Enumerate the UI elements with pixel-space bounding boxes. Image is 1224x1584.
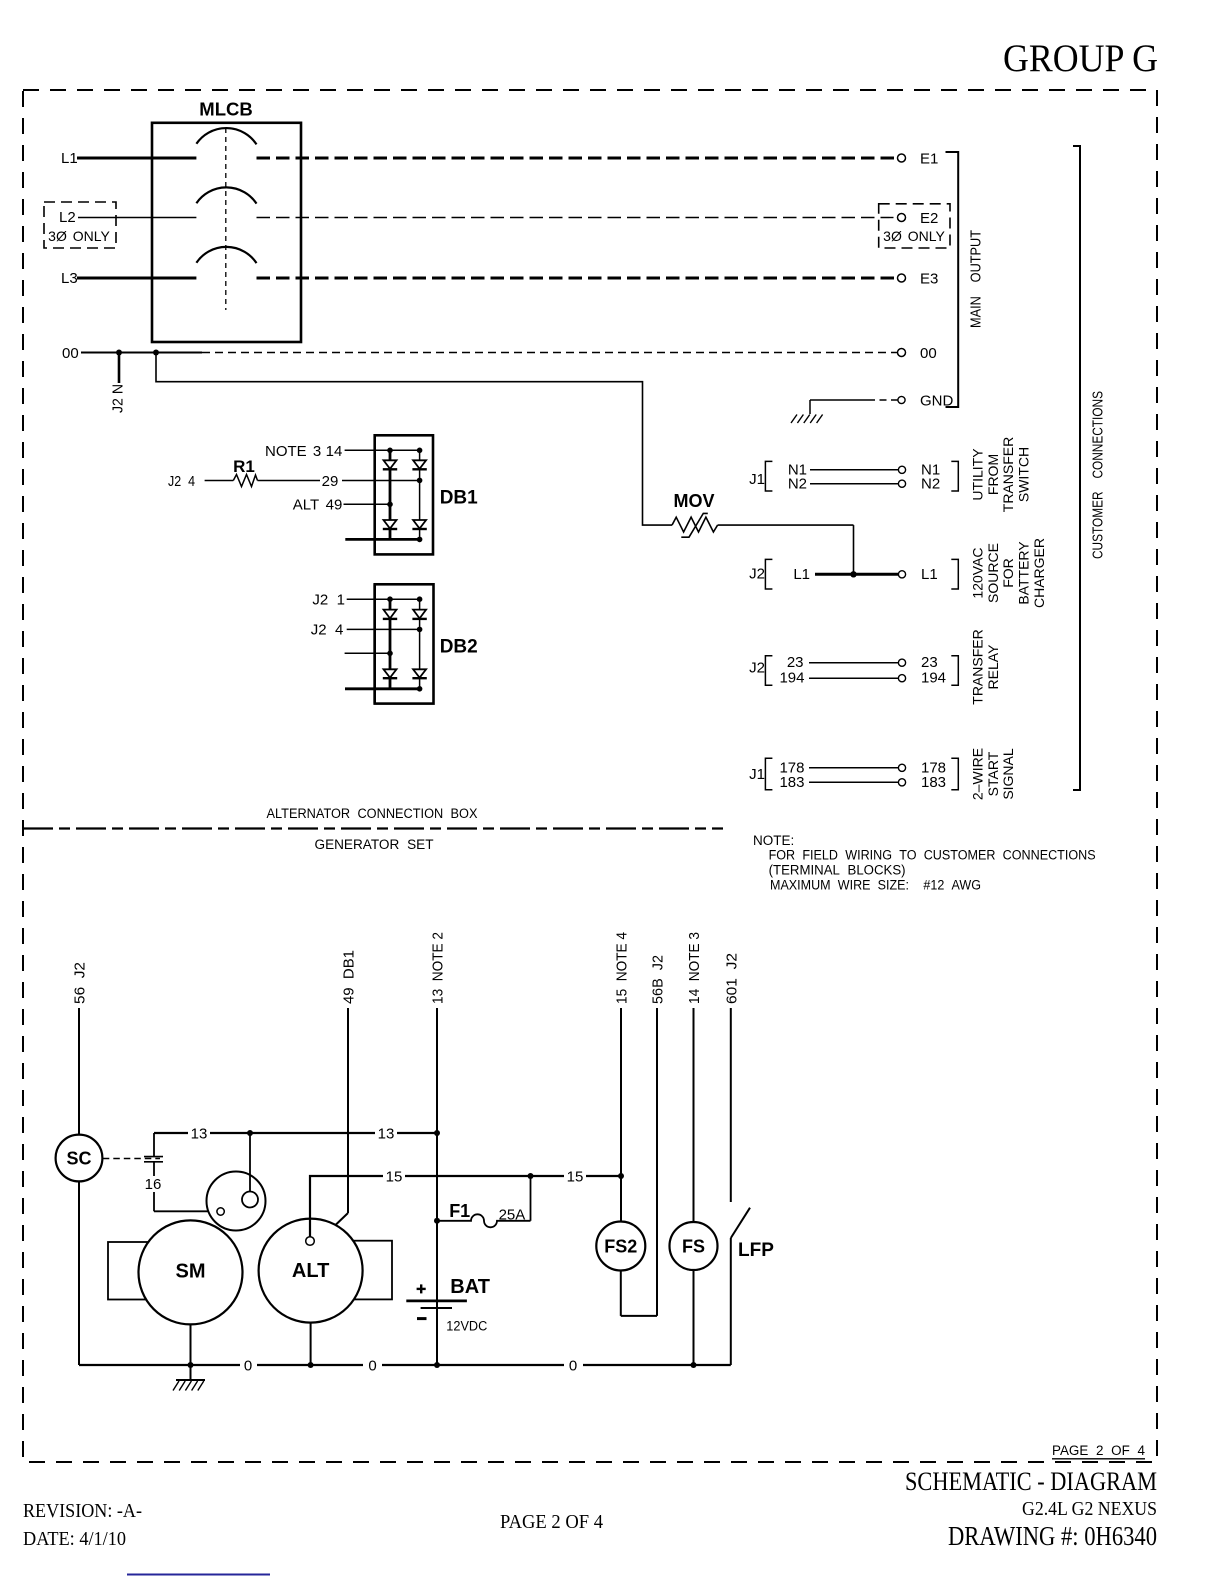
svg-text:NOTE:: NOTE: [753, 833, 794, 848]
svg-text:J2: J2 [749, 566, 765, 583]
svg-text:DB1: DB1 [440, 488, 478, 509]
svg-text:MAXIMUM WIRE SIZE: #12 AWG: MAXIMUM WIRE SIZE: #12 AWG [770, 878, 981, 893]
svg-text:L1: L1 [921, 566, 938, 583]
svg-text:UTILITY: UTILITY [969, 448, 985, 501]
svg-text:15: 15 [386, 1169, 403, 1186]
svg-text:183: 183 [921, 774, 946, 791]
svg-text:E3: E3 [920, 271, 938, 288]
svg-text:SM: SM [176, 1261, 206, 1283]
svg-text:NOTE 3: NOTE 3 [265, 443, 321, 460]
svg-text:49 DB1: 49 DB1 [341, 950, 358, 1004]
svg-text:START: START [985, 751, 1001, 796]
svg-text:CUSTOMER CONNECTIONS: CUSTOMER CONNECTIONS [1090, 391, 1107, 559]
svg-text:13: 13 [191, 1126, 208, 1143]
svg-text:TRANSFER: TRANSFER [1000, 437, 1016, 512]
svg-text:56 J2: 56 J2 [72, 962, 89, 1004]
svg-text:DB2: DB2 [440, 637, 478, 658]
svg-text:R1: R1 [233, 457, 255, 476]
svg-text:15 NOTE 4: 15 NOTE 4 [614, 932, 631, 1004]
svg-text:120VAC: 120VAC [969, 547, 985, 598]
svg-text:L1: L1 [61, 150, 78, 167]
svg-text:FROM: FROM [985, 454, 1001, 495]
svg-text:SCHEMATIC - DIAGRAM: SCHEMATIC - DIAGRAM [905, 1467, 1157, 1496]
svg-text:0: 0 [569, 1358, 577, 1375]
svg-text:F1: F1 [449, 1201, 470, 1221]
svg-text:25A: 25A [499, 1207, 526, 1224]
svg-text:MOV: MOV [673, 491, 714, 511]
svg-text:56B J2: 56B J2 [650, 955, 667, 1004]
svg-text:ALT: ALT [293, 497, 319, 514]
svg-text:J1: J1 [749, 471, 765, 488]
svg-text:13 NOTE 2: 13 NOTE 2 [430, 932, 447, 1004]
svg-text:BATTERY: BATTERY [1016, 541, 1032, 605]
svg-text:14 NOTE 3: 14 NOTE 3 [686, 932, 703, 1004]
svg-text:SIGNAL: SIGNAL [1000, 748, 1016, 800]
svg-text:0: 0 [244, 1358, 252, 1375]
svg-text:L3: L3 [61, 270, 78, 287]
svg-text:PAGE 2 OF 4: PAGE 2 OF 4 [1052, 1443, 1145, 1458]
svg-text:FS2: FS2 [604, 1237, 637, 1257]
svg-text:3Ø ONLY: 3Ø ONLY [883, 228, 945, 244]
svg-text:3Ø ONLY: 3Ø ONLY [48, 228, 110, 244]
svg-text:23: 23 [921, 654, 938, 671]
svg-text:15: 15 [567, 1169, 584, 1186]
svg-text:J1: J1 [749, 766, 765, 783]
svg-text:14: 14 [326, 443, 343, 460]
svg-text:12VDC: 12VDC [446, 1319, 487, 1334]
svg-text:23: 23 [787, 654, 804, 671]
svg-text:601 J2: 601 J2 [723, 953, 740, 1004]
svg-text:SOURCE: SOURCE [985, 543, 1001, 603]
svg-text:00: 00 [62, 345, 79, 362]
svg-text:2–WIRE: 2–WIRE [969, 748, 985, 800]
svg-text:CHARGER: CHARGER [1031, 538, 1047, 608]
svg-text:J2 N: J2 N [110, 384, 127, 413]
svg-text:MLCB: MLCB [199, 99, 252, 120]
svg-text:SC: SC [66, 1149, 91, 1169]
svg-text:DATE: 4/1/10: DATE: 4/1/10 [23, 1528, 126, 1550]
svg-text:GROUP G: GROUP G [1003, 37, 1158, 80]
svg-text:N2: N2 [921, 475, 940, 492]
svg-text:16: 16 [145, 1176, 162, 1193]
svg-text:FS: FS [682, 1237, 705, 1257]
svg-text:J2 4: J2 4 [168, 473, 195, 490]
svg-text:FOR FIELD WIRING TO CUSTOMER C: FOR FIELD WIRING TO CUSTOMER CONNECTIONS [769, 848, 1096, 863]
svg-text:DRAWING #: 0H6340: DRAWING #: 0H6340 [948, 1521, 1157, 1551]
svg-text:BAT: BAT [450, 1276, 490, 1298]
svg-text:00: 00 [920, 345, 937, 362]
svg-text:(TERMINAL BLOCKS): (TERMINAL BLOCKS) [769, 863, 906, 878]
svg-text:ALT: ALT [292, 1260, 329, 1282]
svg-text:PAGE 2 OF 4: PAGE 2 OF 4 [500, 1511, 603, 1533]
svg-text:0: 0 [368, 1358, 376, 1375]
svg-text:FOR: FOR [1000, 558, 1016, 588]
svg-text:E2: E2 [920, 210, 938, 227]
svg-text:194: 194 [779, 670, 804, 687]
svg-text:ALTERNATOR CONNECTION BOX: ALTERNATOR CONNECTION BOX [267, 806, 478, 821]
svg-text:G2.4L G2 NEXUS: G2.4L G2 NEXUS [1022, 1498, 1157, 1520]
svg-text:SWITCH: SWITCH [1016, 447, 1032, 502]
svg-text:13: 13 [378, 1126, 395, 1143]
svg-text:194: 194 [921, 670, 946, 687]
svg-text:REVISION: -A-: REVISION: -A- [23, 1500, 142, 1522]
svg-text:29: 29 [322, 473, 339, 490]
svg-text:LFP: LFP [738, 1240, 774, 1261]
svg-text:183: 183 [779, 774, 804, 791]
svg-text:49: 49 [326, 497, 343, 514]
svg-text:MAIN OUTPUT: MAIN OUTPUT [967, 230, 984, 328]
svg-text:RELAY: RELAY [985, 644, 1001, 690]
svg-text:L2: L2 [59, 209, 76, 226]
svg-text:N2: N2 [788, 475, 807, 492]
svg-text:GENERATOR SET: GENERATOR SET [315, 837, 434, 852]
svg-text:J2: J2 [749, 660, 765, 677]
svg-text:J2 4: J2 4 [311, 622, 344, 639]
svg-text:L1: L1 [793, 566, 810, 583]
svg-text:J2 1: J2 1 [312, 592, 345, 609]
svg-text:E1: E1 [920, 151, 938, 168]
svg-text:TRANSFER: TRANSFER [969, 629, 985, 704]
